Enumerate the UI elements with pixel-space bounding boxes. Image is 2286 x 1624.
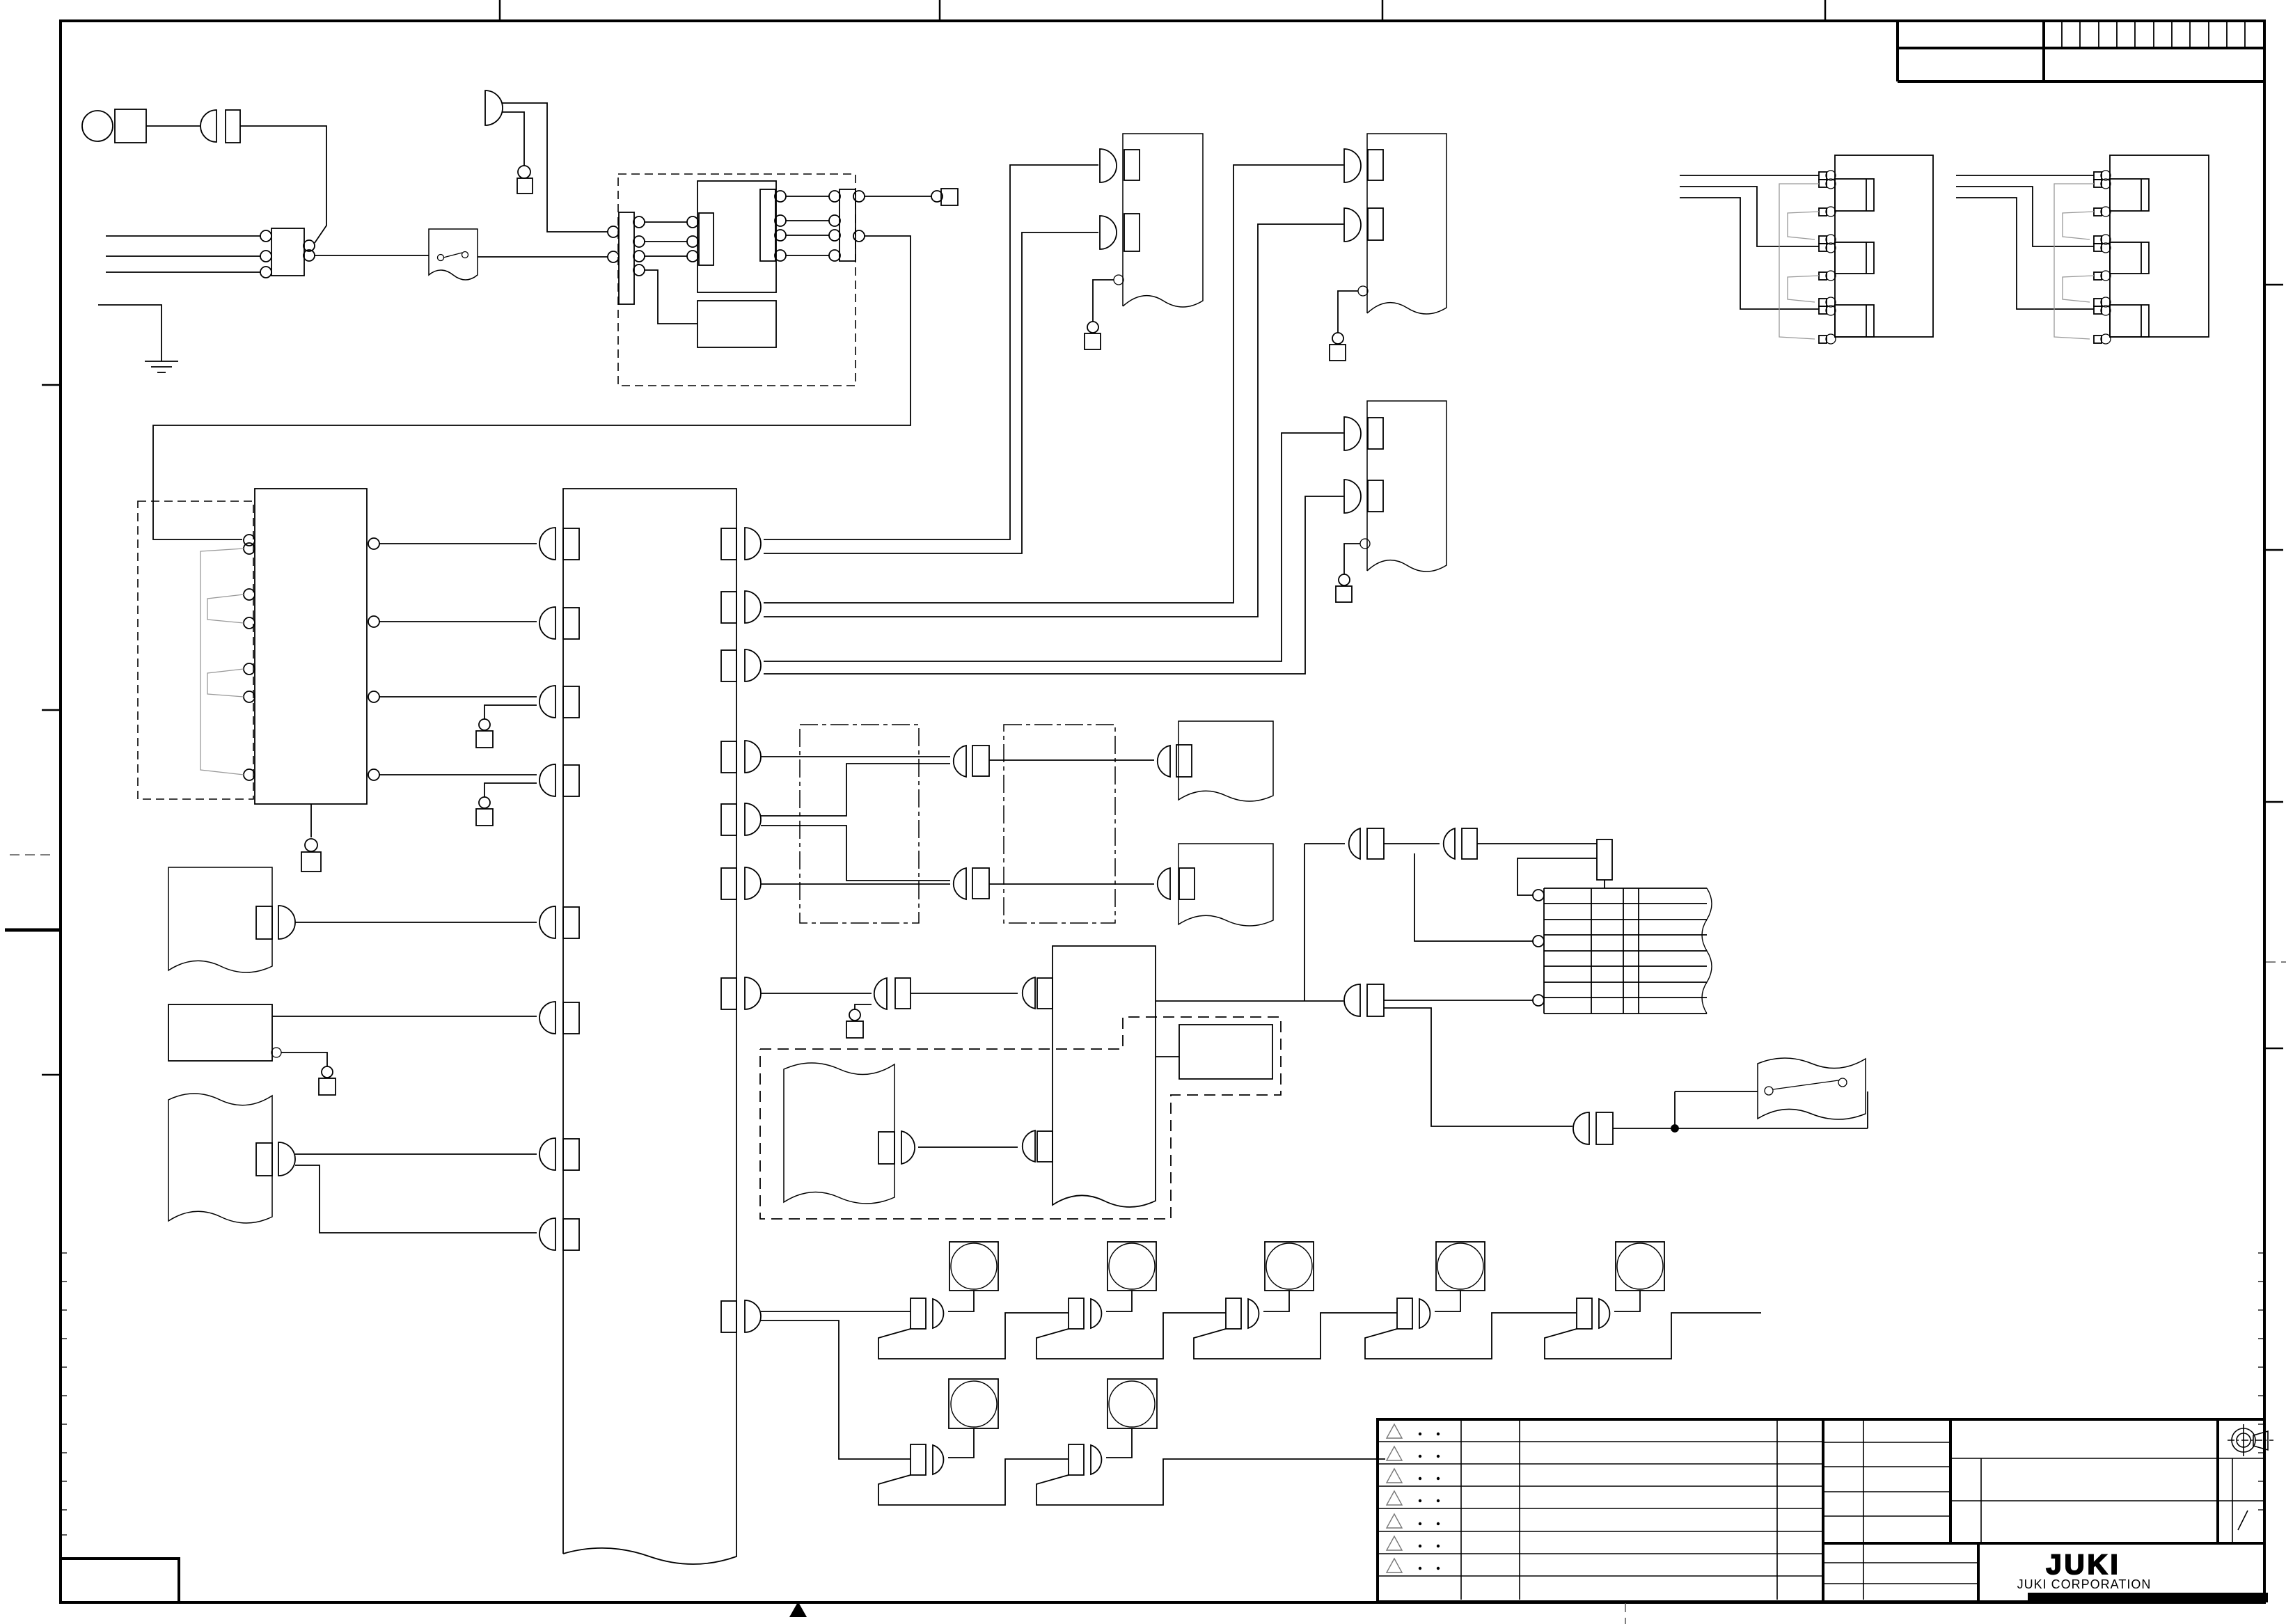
svg-text:JUKI CORPORATION: JUKI CORPORATION bbox=[2017, 1577, 2152, 1591]
svg-text:JUKI: JUKI bbox=[2046, 1550, 2120, 1580]
